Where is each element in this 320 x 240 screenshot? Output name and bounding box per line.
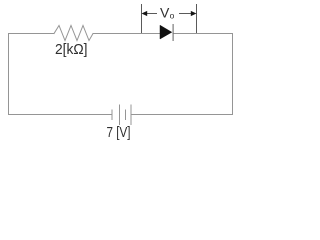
- svg-text:2[kΩ]: 2[kΩ]: [55, 41, 88, 58]
- svg-text:o: o: [170, 11, 175, 21]
- svg-text:V: V: [160, 5, 170, 21]
- svg-text:7 [V]: 7 [V]: [107, 125, 131, 141]
